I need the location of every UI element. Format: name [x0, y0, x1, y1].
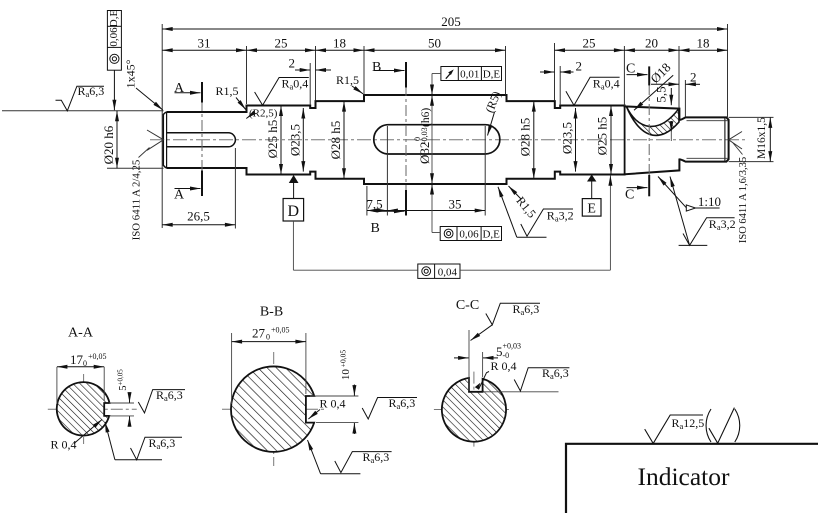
svg-text:18: 18 [697, 35, 710, 50]
svg-text:0,01: 0,01 [460, 69, 479, 81]
section C-C [434, 298, 570, 449]
fillet note R1,5 (first shoulder) [216, 84, 246, 110]
left center hole mark [147, 130, 164, 150]
svg-text:B: B [371, 221, 380, 236]
svg-text:Ø25 h5: Ø25 h5 [265, 120, 280, 159]
dimension 18 (right) [679, 49, 728, 51]
stud chamfer line [724, 117, 726, 161]
frame concentricity 0,04 (bottom middle) [293, 175, 610, 278]
svg-text:D,E: D,E [108, 10, 120, 28]
svg-text:7,5: 7,5 [366, 197, 382, 212]
A-A dim 17 [56, 367, 58, 404]
svg-text:+0,05: +0,05 [88, 352, 107, 361]
B-B hatched circle with keyway [231, 366, 314, 451]
svg-text:Ra6,3: Ra6,3 [149, 436, 176, 451]
svg-text:0: 0 [266, 333, 270, 342]
svg-text:+0,03: +0,03 [503, 342, 522, 351]
extension lines [2, 24, 774, 229]
B-B dim 10 [310, 395, 358, 397]
svg-text:0,06: 0,06 [459, 229, 479, 241]
svg-text:205: 205 [441, 14, 461, 29]
roughness Ra0,4 (left) [255, 76, 309, 105]
svg-text:M16x1,5: M16x1,5 [756, 117, 768, 159]
svg-text:C: C [626, 62, 635, 77]
svg-text:1x45°: 1x45° [123, 59, 137, 88]
A-A hatched circle with keyway [57, 382, 110, 435]
svg-text:Ø28 h5: Ø28 h5 [517, 118, 532, 157]
svg-text:-0,03: -0,03 [420, 127, 429, 144]
roughness Ra3,2 (left, at shoulder) [498, 187, 574, 237]
svg-text:Ra3,2: Ra3,2 [547, 208, 574, 223]
A-A centerlines [48, 408, 137, 410]
svg-text:26,5: 26,5 [187, 209, 210, 224]
dimension 25 (left) [247, 49, 316, 51]
svg-text:Indicator: Indicator [637, 462, 730, 491]
dimension Ø23,5 (right) [575, 108, 577, 172]
svg-text:35: 35 [449, 197, 462, 212]
svg-text:A-A: A-A [68, 326, 94, 341]
dimension 2 (right groove) [540, 71, 555, 73]
B-B roughness Ra6,3 (lower) [308, 440, 321, 474]
dimension 18 (left) [316, 49, 365, 51]
svg-text:R 0,4: R 0,4 [51, 438, 77, 452]
roughness Ra6,3 (left end) [56, 84, 105, 111]
B-B dim 27 [231, 333, 233, 404]
svg-text:B-B: B-B [260, 305, 283, 320]
C-C centerlines [434, 409, 512, 411]
svg-text:20: 20 [645, 35, 658, 50]
section cut line C [625, 62, 649, 203]
svg-text:18: 18 [333, 35, 346, 50]
B-B roughness Ra6,3 (keyway side) [362, 398, 417, 420]
dimension 25 (right) [555, 49, 625, 51]
svg-text:Ra6,3: Ra6,3 [363, 450, 390, 465]
svg-text:Ø20 h6: Ø20 h6 [101, 125, 116, 164]
keyway slot on Ø20 [166, 133, 235, 147]
svg-text:Ra6,3: Ra6,3 [389, 396, 416, 411]
svg-text:Ø28 h5: Ø28 h5 [328, 121, 343, 160]
svg-text:25: 25 [583, 35, 596, 50]
svg-text:Ra3,2: Ra3,2 [709, 217, 736, 232]
dimension Ø28 h5 (left) [343, 101, 345, 179]
svg-text:R 0,4: R 0,4 [491, 359, 517, 373]
C-C slot bottom extension [483, 391, 559, 393]
fillet note R1,5 (second shoulder) [336, 73, 363, 94]
svg-text:R 0,4: R 0,4 [320, 397, 346, 411]
roughness Ra3,2 (right, taper) [670, 177, 736, 246]
svg-text:A: A [174, 188, 185, 203]
svg-text:ISO 6411 A 1,6/3,35: ISO 6411 A 1,6/3,35 [738, 157, 749, 243]
C-C hatched circle with top keyway [442, 378, 506, 442]
taper scoop cutaway [626, 107, 679, 136]
svg-text:(R2,5): (R2,5) [249, 108, 278, 120]
leader Ø18 [634, 75, 673, 110]
section B-B [222, 305, 417, 474]
dimension 2 (stud groove) [651, 83, 679, 85]
svg-text:0,06: 0,06 [108, 27, 120, 47]
datum D [283, 175, 304, 270]
svg-text:D,E: D,E [482, 229, 500, 241]
svg-text:Ra6,3: Ra6,3 [156, 388, 183, 403]
taper left face [624, 106, 626, 175]
svg-text:A: A [174, 81, 185, 96]
svg-text:2: 2 [690, 70, 697, 85]
svg-text:0: 0 [83, 359, 87, 368]
centre hole note ISO 6411 A 1,6/3,35 [733, 143, 749, 243]
svg-text:R1,5: R1,5 [336, 73, 359, 87]
svg-text:+0,05: +0,05 [271, 326, 290, 335]
dimension M16x1,5 [769, 117, 771, 161]
dimension Ø25 h5 (right) [610, 106, 612, 175]
title block (Indicator) [566, 444, 818, 513]
dimension 7,5 [367, 210, 388, 212]
svg-text:E: E [587, 202, 596, 217]
dimension 20 [624, 49, 679, 51]
A-A roughness Ra6,3 (keyway side) [138, 390, 185, 413]
C-C roughness Ra6,3 (right) [514, 368, 569, 391]
svg-text:1:10: 1:10 [698, 194, 721, 209]
chamfer note 1x45 [123, 59, 163, 110]
right center hole mark [729, 132, 742, 150]
A-A roughness Ra6,3 (lower) [105, 422, 115, 460]
svg-text:(h6): (h6) [420, 108, 432, 127]
svg-text:Ra6,3: Ra6,3 [78, 84, 105, 99]
keyway slot on Ø32 [374, 125, 500, 154]
general roughness note Ra12,5 with (check) [645, 408, 740, 444]
svg-text:25: 25 [275, 35, 288, 50]
dimension 26,5 [162, 224, 235, 226]
left end face [163, 112, 166, 168]
datum E [582, 175, 601, 217]
svg-text:Ø23,5: Ø23,5 [559, 122, 574, 154]
svg-text:D: D [288, 203, 300, 220]
svg-text:Ra0,4: Ra0,4 [593, 77, 620, 92]
svg-text:17: 17 [70, 352, 84, 367]
dimension Ø28 h5 (right) [533, 101, 535, 179]
C-C dim 5 [468, 330, 470, 391]
keyway radius note (R5) [482, 89, 503, 135]
svg-text:ISO 6411 A 2/4,25: ISO 6411 A 2/4,25 [130, 160, 142, 241]
frame concentricity 0,06 D,E (bottom) [432, 227, 502, 241]
svg-text:Ø25 h5: Ø25 h5 [594, 117, 609, 156]
svg-text:2: 2 [289, 56, 296, 71]
dimension 5,5 (taper key depth) [670, 88, 672, 105]
dimension Ø20 h6 [116, 111, 118, 169]
svg-text:Ra6,3: Ra6,3 [513, 302, 540, 317]
taper flag 1:10 [686, 205, 695, 211]
C-C roughness Ra6,3 (top leader) [471, 325, 493, 341]
A-A dim 5 [109, 402, 134, 404]
fillet note (R2,5) [246, 108, 277, 120]
section A-A [48, 326, 185, 460]
dimension Ø25 h5 (left) [280, 106, 282, 175]
dimension 50 [364, 49, 506, 51]
section cut line A [174, 81, 202, 203]
B-B centerlines [222, 408, 325, 410]
thread minor lines [687, 120, 729, 122]
roughness Ra0,4 (right) [566, 77, 620, 106]
svg-text:0,04: 0,04 [438, 266, 458, 278]
shaft outline [166, 95, 728, 184]
dimension Ø32 h6 with runout leaders [431, 74, 433, 233]
svg-text:2: 2 [576, 59, 583, 74]
svg-text:31: 31 [198, 35, 211, 50]
svg-text:Ra0,4: Ra0,4 [282, 76, 309, 91]
dimension 31 [162, 49, 246, 51]
svg-text:R1,5: R1,5 [216, 84, 239, 98]
frame circular runout 0,01 D,E (top) [432, 67, 502, 81]
main shaft centerline [150, 139, 746, 141]
svg-text:D,E: D,E [483, 69, 501, 81]
svg-text:5,5: 5,5 [653, 86, 668, 102]
frame concentricity 0,06 (top-left, vertical) [107, 10, 121, 111]
svg-text:C: C [625, 188, 634, 203]
svg-text:Ra12,5: Ra12,5 [672, 416, 705, 431]
dimension 2 (left groove) [295, 69, 310, 71]
centre hole note ISO 6411 A 2/4,25 [130, 148, 149, 241]
svg-text:Ø23,5: Ø23,5 [288, 124, 303, 156]
svg-text:27: 27 [252, 326, 266, 341]
dimension 205 [162, 28, 727, 30]
dimension Ø23,5 (left) [302, 108, 304, 172]
fillet note R1,5 (right shoulder, rotated) [509, 186, 539, 221]
left chamfer line [166, 112, 168, 168]
svg-text:Ra6,3: Ra6,3 [542, 366, 569, 381]
dimension 35 [387, 210, 485, 212]
svg-text:B: B [372, 60, 381, 75]
svg-text:C-C: C-C [456, 298, 479, 313]
section cut line B [371, 60, 407, 236]
svg-text:50: 50 [428, 35, 441, 50]
